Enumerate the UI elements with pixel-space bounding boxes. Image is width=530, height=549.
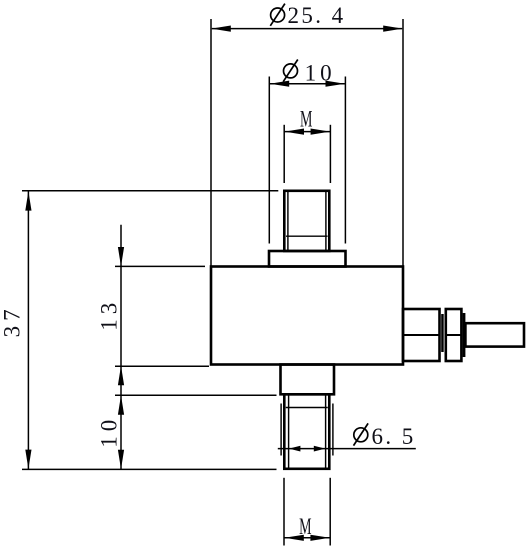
- svg-text:M: M: [299, 514, 311, 539]
- sensor body: [211, 267, 403, 365]
- dimension Ø6.5: [278, 448, 416, 450]
- svg-text:10: 10: [97, 415, 122, 448]
- dimension 10 left: [115, 394, 277, 396]
- bottom stud thread lines: [281, 396, 333, 468]
- svg-text:10: 10: [305, 61, 336, 86]
- dimension Ø25.4: [211, 19, 403, 266]
- dimension 13: [115, 225, 209, 470]
- dimension Ø10: [269, 77, 345, 244]
- svg-text:13: 13: [97, 298, 122, 331]
- top collar: [269, 251, 346, 267]
- top stud thread lines: [286, 192, 328, 250]
- svg-text:M: M: [300, 107, 312, 132]
- svg-text:25. 4: 25. 4: [288, 3, 346, 28]
- svg-text:37: 37: [0, 304, 25, 337]
- cable gland block 1: [403, 309, 440, 361]
- gland washer: [463, 313, 466, 357]
- bottom collar: [281, 365, 335, 395]
- dimension 37: [22, 191, 278, 470]
- gland neck: [441, 314, 444, 352]
- dimension M top: [284, 125, 330, 183]
- top stud outer: [284, 191, 329, 251]
- cable: [465, 323, 524, 346]
- bottom stud outer: [284, 394, 329, 469]
- dimension M bottom: [284, 478, 330, 546]
- gland nut block 2: [446, 309, 462, 361]
- svg-text:6. 5: 6. 5: [372, 424, 416, 449]
